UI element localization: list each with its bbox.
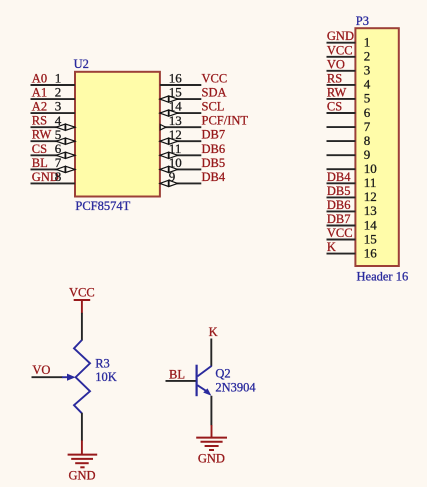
svg-text:P3: P3 (356, 14, 369, 28)
P3 pin 13 number (364, 203, 377, 218)
net label K (209, 325, 218, 339)
net label DB7 (327, 212, 351, 226)
U2 pin 15 I/O arrow (160, 96, 178, 102)
P3 pin 14 number (364, 217, 378, 232)
wire U2 pin 1 (31, 84, 76, 86)
svg-text:14: 14 (364, 217, 378, 232)
net label BL (169, 368, 185, 382)
svg-text:DB4: DB4 (202, 170, 226, 184)
svg-text:A0: A0 (32, 72, 47, 86)
IC U2 body (PCF8574T) (75, 72, 160, 197)
net label GND (327, 29, 354, 43)
U2 pin 9 number (169, 169, 176, 184)
wire BL to Q2 base (166, 380, 196, 382)
U2 pin 12 I/O arrow (160, 138, 178, 144)
svg-text:RW: RW (327, 85, 347, 99)
svg-text:K: K (209, 325, 218, 339)
net label A2 (32, 100, 47, 114)
svg-text:7: 7 (364, 119, 371, 134)
net label CS (327, 100, 342, 114)
svg-text:GND: GND (68, 468, 95, 482)
U2 pin 9 I/O arrow (160, 180, 178, 186)
connector P3 body (Header 16) (355, 28, 398, 266)
net label GND (32, 170, 59, 184)
U2 pin 12 number (169, 127, 182, 142)
wire U2 pin 12 (160, 140, 201, 142)
value 2N3904 (215, 381, 256, 395)
svg-text:VCC: VCC (69, 286, 95, 300)
svg-text:CS: CS (32, 142, 47, 156)
svg-text:9: 9 (364, 147, 371, 162)
svg-text:K: K (327, 240, 336, 254)
svg-text:PCF8574T: PCF8574T (75, 199, 130, 213)
P3 pin 8 number (364, 133, 371, 148)
wire P3 pin 8 (327, 140, 356, 142)
wire U2 pin 7 (31, 168, 76, 170)
R3 wiper arrow (62, 374, 76, 381)
svg-text:10: 10 (364, 161, 377, 176)
net label DB5 (327, 184, 351, 198)
net label DB6 (327, 198, 351, 212)
svg-text:2: 2 (55, 85, 62, 100)
wire P3 pin 3 (327, 70, 356, 72)
P3 pin 3 number (364, 63, 371, 78)
net label A1 (32, 86, 47, 100)
P3 pin 5 number (364, 91, 371, 106)
net label VO (327, 57, 345, 71)
wire P3 pin 6 (327, 112, 356, 114)
svg-text:Q2: Q2 (215, 366, 230, 380)
U2 pin 1 number (55, 71, 62, 86)
wire K to Q2 collector (210, 339, 212, 367)
svg-text:DB6: DB6 (202, 142, 226, 156)
net label DB5 (202, 156, 226, 170)
net label SCL (202, 100, 225, 114)
svg-text:VO: VO (327, 57, 345, 71)
svg-text:DB5: DB5 (327, 184, 351, 198)
svg-text:BL: BL (169, 368, 185, 382)
wire U2 pin 6 (31, 154, 76, 156)
U2 pin 6 number (55, 141, 62, 156)
net label VO (32, 363, 50, 377)
svg-text:3: 3 (364, 63, 371, 78)
wire U2 pin 10 (160, 168, 201, 170)
net label PCF/INT (202, 114, 249, 128)
wire U2 pin 13 (160, 126, 201, 128)
P3 pin 12 number (364, 189, 377, 204)
svg-text:RS: RS (32, 114, 47, 128)
U2 pin 3 number (55, 99, 62, 114)
wire R3 to GND (81, 413, 83, 441)
U2 pin 4 number (55, 113, 62, 128)
svg-text:15: 15 (364, 231, 377, 246)
net label DB7 (202, 128, 226, 142)
U2 pin 11 number (169, 141, 182, 156)
svg-text:GND: GND (198, 452, 225, 466)
net label RS (327, 71, 342, 85)
wire P3 pin 2 (327, 56, 356, 58)
svg-text:1: 1 (364, 35, 371, 50)
svg-text:U2: U2 (74, 57, 89, 71)
net label CS (32, 142, 47, 156)
net label GND (R3) (68, 468, 95, 482)
net label VCC (327, 226, 353, 240)
svg-text:3: 3 (55, 99, 62, 114)
P3 pin 11 number (364, 175, 377, 190)
ground symbol GND (R3) (68, 440, 98, 467)
value 10K (95, 370, 117, 384)
wire P3 pin 10 (327, 168, 356, 170)
wire U2 pin 16 (160, 84, 201, 86)
net label BL (32, 156, 48, 170)
svg-text:10K: 10K (95, 370, 117, 384)
svg-text:CS: CS (327, 100, 342, 114)
wire P3 pin 13 (327, 210, 356, 212)
designator U2 (74, 57, 89, 71)
svg-text:VCC: VCC (202, 72, 228, 86)
U2 pin 7 number (55, 155, 62, 170)
svg-text:2N3904: 2N3904 (215, 381, 256, 395)
U2 pin 2 number (55, 85, 62, 100)
wire VCC to R3 (81, 313, 83, 341)
wire U2 pin 5 (31, 140, 76, 142)
U2 pin 16 number (169, 71, 183, 86)
svg-text:DB7: DB7 (327, 212, 351, 226)
svg-text:A1: A1 (32, 86, 47, 100)
net label K (327, 240, 336, 254)
wire U2 pin 4 (31, 126, 76, 128)
svg-text:13: 13 (169, 113, 182, 128)
wire VO to R3 wiper (32, 376, 63, 378)
wire P3 pin 1 (327, 42, 356, 44)
svg-text:R3: R3 (95, 357, 110, 371)
U2 pin 4 I/O arrow (56, 124, 75, 130)
svg-text:5: 5 (364, 91, 371, 106)
U2 pin 6 I/O arrow (56, 152, 75, 158)
net label DB6 (202, 142, 226, 156)
wire U2 pin 9 (160, 182, 201, 184)
U2 pin 13 output arrow (160, 125, 166, 130)
designator Q2 (215, 366, 230, 380)
net label SDA (202, 86, 227, 100)
wire P3 pin 4 (327, 84, 356, 86)
svg-text:2: 2 (364, 49, 371, 64)
wire U2 pin 14 (160, 112, 201, 114)
net label RW (327, 85, 347, 99)
P3 pin 2 number (364, 49, 371, 64)
P3 pin 4 number (364, 77, 371, 92)
wire P3 pin 11 (327, 182, 356, 184)
svg-text:DB7: DB7 (202, 128, 226, 142)
net label DB4 (327, 170, 351, 184)
U2 pin 5 I/O arrow (56, 138, 75, 144)
wire U2 pin 3 (31, 112, 76, 114)
svg-text:DB5: DB5 (202, 156, 226, 170)
P3 pin 16 number (364, 245, 378, 260)
net label VCC (202, 72, 228, 86)
svg-text:A2: A2 (32, 100, 47, 114)
P3 pin 15 number (364, 231, 377, 246)
P3 pin 10 number (364, 161, 377, 176)
net label DB4 (202, 170, 226, 184)
U2 pin 10 number (169, 155, 182, 170)
U2 pin 5 number (55, 127, 62, 142)
P3 pin 1 number (364, 35, 371, 50)
net label RS (32, 114, 47, 128)
value Header 16 (357, 269, 409, 283)
U2 pin 8 number (55, 169, 62, 184)
U2 pin 7 I/O arrow (56, 166, 75, 172)
U2 pin 10 I/O arrow (160, 166, 178, 172)
svg-text:DB6: DB6 (327, 198, 351, 212)
U2 pin 11 I/O arrow (160, 152, 178, 158)
wire P3 pin 5 (327, 98, 356, 100)
net label A0 (32, 72, 47, 86)
wire U2 pin 8 (31, 182, 76, 184)
svg-text:8: 8 (55, 169, 62, 184)
svg-text:Header 16: Header 16 (357, 269, 409, 283)
wire U2 pin 11 (160, 154, 201, 156)
svg-text:BL: BL (32, 156, 48, 170)
P3 pin 6 number (364, 105, 371, 120)
wire P3 pin 12 (327, 196, 356, 198)
potentiometer R3 body (74, 340, 90, 413)
wire Q2 emitter to GND (210, 396, 212, 426)
transistor Q2 body (197, 365, 212, 397)
ground symbol GND (Q2) (196, 425, 227, 450)
power port VCC (69, 286, 95, 314)
designator P3 (356, 14, 369, 28)
svg-text:SCL: SCL (202, 100, 225, 114)
svg-text:VCC: VCC (327, 43, 353, 57)
wire U2 pin 15 (160, 98, 201, 100)
U2 pin 15 number (169, 85, 182, 100)
svg-text:8: 8 (364, 133, 371, 148)
wire P3 pin 16 (327, 253, 356, 255)
svg-text:PCF/INT: PCF/INT (202, 114, 249, 128)
P3 pin 9 number (364, 147, 371, 162)
P3 pin 7 number (364, 119, 371, 134)
svg-text:6: 6 (364, 105, 371, 120)
svg-text:DB4: DB4 (327, 170, 351, 184)
svg-text:12: 12 (364, 189, 377, 204)
U2 pin 13 number (169, 113, 182, 128)
svg-text:1: 1 (55, 71, 62, 86)
svg-text:SDA: SDA (202, 86, 227, 100)
svg-text:VCC: VCC (327, 226, 353, 240)
net label RW (32, 128, 52, 142)
svg-text:VO: VO (32, 363, 50, 377)
wire P3 pin 15 (327, 239, 356, 241)
net label VCC (327, 43, 353, 57)
svg-text:16: 16 (169, 71, 183, 86)
svg-text:4: 4 (364, 77, 371, 92)
svg-text:RW: RW (32, 128, 52, 142)
designator R3 (95, 357, 110, 371)
svg-text:13: 13 (364, 203, 377, 218)
value PCF8574T (75, 199, 130, 213)
U2 pin 14 I/O arrow (160, 110, 178, 116)
wire U2 pin 2 (31, 98, 76, 100)
svg-text:11: 11 (364, 175, 377, 190)
wire P3 pin 7 (327, 126, 356, 128)
wire P3 pin 9 (327, 154, 356, 156)
U2 pin 14 number (169, 99, 183, 114)
wire P3 pin 14 (327, 225, 356, 227)
svg-text:GND: GND (327, 29, 354, 43)
svg-text:RS: RS (327, 71, 342, 85)
svg-text:16: 16 (364, 245, 378, 260)
net label GND (Q2) (198, 452, 225, 466)
